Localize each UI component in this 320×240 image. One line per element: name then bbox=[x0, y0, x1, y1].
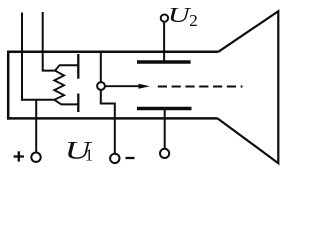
terminal U2 (circle) bbox=[161, 14, 168, 21]
terminal of lower plate (circle) bbox=[160, 149, 169, 158]
tube flare / screen funnel bbox=[218, 11, 279, 163]
terminal - (circle) bbox=[110, 154, 119, 163]
grid/cathode plate lower bar bbox=[77, 94, 79, 113]
electron beam arrow bbox=[105, 85, 141, 87]
wire: + supply lead bbox=[35, 100, 37, 152]
wire: U2 lead through envelope to upper plate bbox=[163, 23, 165, 61]
grid/cathode plate upper bar bbox=[77, 54, 79, 79]
deflection plate upper bbox=[137, 60, 191, 64]
minus sign bbox=[126, 157, 135, 159]
wire: anode to envelope top wall bbox=[100, 53, 102, 82]
wire: zigzag bottom to grid lower bar bbox=[61, 103, 78, 105]
anode aperture A (circle) bbox=[97, 82, 105, 90]
wire: anode down to minus terminal bbox=[101, 90, 115, 153]
filament lead wire F1 bbox=[21, 13, 23, 101]
terminal + (circle) bbox=[31, 153, 40, 162]
tube envelope (left, top, bottom walls) bbox=[7, 51, 219, 120]
resistor (filament / bias zigzag) bbox=[54, 65, 64, 104]
svg-text:1: 1 bbox=[85, 146, 94, 165]
wire: lower plate lead to bottom terminal bbox=[164, 109, 166, 149]
electron beam dashed path bbox=[158, 86, 243, 88]
deflection plate lower bbox=[137, 107, 192, 111]
filament lead wire F2 bbox=[43, 12, 55, 71]
wire: zigzag lower tap to filament lead F1 bbox=[21, 99, 55, 101]
svg-text:2: 2 bbox=[189, 11, 198, 30]
plus sign bbox=[14, 151, 24, 161]
wire: zigzag top to grid upper bar bbox=[59, 64, 78, 66]
